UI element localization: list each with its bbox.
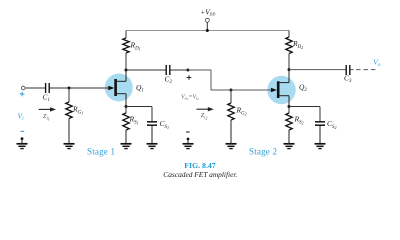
- wire C1 to gate Q1: [50, 87, 109, 89]
- input terminal: [21, 86, 25, 90]
- wire RD1 to drain node: [125, 53, 127, 70]
- node gate Q1 / RG1: [68, 87, 71, 90]
- node gate Q2 / RG2: [230, 89, 233, 92]
- svg-text:Q2: Q2: [299, 83, 307, 94]
- svg-text:Cascaded FET amplifier.: Cascaded FET amplifier.: [163, 170, 237, 179]
- svg-text:RS1: RS1: [129, 115, 139, 126]
- svg-text:+VDD: +VDD: [200, 7, 215, 16]
- resistor RS2 branch wire: [288, 107, 290, 114]
- arrow Zi2: [197, 107, 214, 111]
- resistor RD2: [286, 37, 292, 54]
- svg-text:RD2: RD2: [292, 39, 303, 50]
- wire drain Q2 vertical: [288, 70, 290, 83]
- wire CS1 to ground: [151, 126, 153, 144]
- arrow Zi1: [39, 107, 56, 111]
- wire RG1 to ground: [68, 119, 70, 144]
- resistor RG2: [228, 103, 234, 120]
- svg-text:Stage 2: Stage 2: [249, 146, 277, 156]
- wire source Q1 to CS1: [126, 106, 152, 108]
- transistor Q2 body circle: [267, 76, 295, 104]
- wire gate Q2: [231, 89, 272, 91]
- svg-text:Vo1=Vi2: Vo1=Vi2: [181, 94, 199, 101]
- svg-text:CS1: CS1: [160, 119, 169, 130]
- svg-text:RG1: RG1: [72, 105, 83, 116]
- wire RS1 to ground: [125, 130, 127, 144]
- ground CS2: [315, 144, 326, 149]
- capacitor C1: [46, 83, 50, 93]
- svg-text:RG2: RG2: [236, 106, 247, 117]
- power +VDD terminal: [205, 18, 209, 32]
- svg-text:Vi: Vi: [18, 111, 25, 122]
- svg-text:RS2: RS2: [294, 115, 304, 126]
- resistor RG1 branch wire: [68, 88, 70, 102]
- wire source Q2 vertical: [288, 96, 290, 107]
- wire CS2 to ground: [319, 126, 321, 144]
- wire RD2 branch top: [288, 31, 290, 38]
- ground CS1: [147, 144, 158, 149]
- label minus polarity Vo1: [186, 131, 190, 133]
- svg-text:C3: C3: [344, 74, 352, 84]
- resistor RG2 branch wire: [230, 90, 232, 103]
- wire CS1 top: [151, 107, 153, 122]
- wire dashed output: [356, 69, 377, 71]
- capacitor C3: [346, 65, 350, 75]
- wire RS2 to ground: [288, 130, 290, 144]
- resistor RD1: [123, 38, 129, 53]
- svg-text:C1: C1: [43, 93, 50, 104]
- svg-text:C2: C2: [165, 75, 173, 86]
- label + polarity Vo1: [187, 75, 192, 80]
- svg-text:Q1: Q1: [136, 83, 144, 94]
- wire source Q2 to CS2: [289, 106, 320, 108]
- wire node Vo1 to Q2 gate step: [188, 70, 231, 90]
- wire top supply rail: [126, 30, 289, 32]
- resistor RG1: [66, 102, 72, 119]
- node source Q1: [125, 105, 128, 108]
- svg-text:Stage 1: Stage 1: [87, 146, 115, 156]
- resistor RS1: [123, 113, 129, 130]
- transistor Q1 body circle: [105, 74, 133, 102]
- node drain Q2: [288, 68, 291, 71]
- capacitor CS1: [147, 122, 157, 125]
- label minus polarity input: [21, 130, 25, 132]
- ground RS2: [284, 144, 295, 149]
- wire output drain Q2 to C3: [289, 69, 346, 71]
- wire input to C1: [25, 87, 45, 89]
- resistor RS2: [286, 113, 292, 130]
- transistor Q2 symbol: [271, 81, 289, 98]
- svg-text:Zi1: Zi1: [43, 113, 50, 122]
- node source Q2: [288, 105, 291, 108]
- capacitor CS2: [315, 122, 325, 125]
- ground RG1: [64, 144, 75, 149]
- wire drain Q1 vertical: [125, 70, 127, 81]
- transistor Q1 symbol: [108, 79, 126, 96]
- wire CS2 top: [319, 107, 321, 122]
- wire to ground input: [21, 139, 23, 144]
- capacitor C2: [166, 65, 170, 75]
- wire RD2 to drain node: [288, 54, 290, 70]
- wire to ground Vo1: [187, 139, 189, 144]
- resistor RS1 branch wire: [125, 107, 127, 114]
- svg-text:FIG. 8.47: FIG. 8.47: [184, 161, 216, 170]
- node ground ref input: [21, 137, 24, 140]
- ground RS1: [121, 144, 132, 149]
- wire drain node to C2: [126, 69, 166, 71]
- svg-text:RD1: RD1: [130, 41, 141, 52]
- svg-text:Vo: Vo: [373, 57, 381, 68]
- ground Vo1: [183, 144, 194, 149]
- wire C2 to node Vo1: [170, 69, 188, 71]
- node drain Q1: [125, 69, 128, 72]
- wire source Q1 vertical: [125, 94, 127, 107]
- label + polarity input: [20, 92, 25, 97]
- svg-text:CS2: CS2: [327, 119, 336, 130]
- wire RG2 to ground: [230, 120, 232, 144]
- wire C3 output stub: [350, 69, 353, 71]
- ground input: [17, 144, 28, 149]
- ground RG2: [226, 144, 237, 149]
- svg-text:Zi2: Zi2: [201, 112, 208, 121]
- node Vo1 = Vi2: [187, 69, 190, 72]
- node ground ref Vo1: [187, 138, 190, 141]
- wire RD1 branch top: [125, 31, 127, 39]
